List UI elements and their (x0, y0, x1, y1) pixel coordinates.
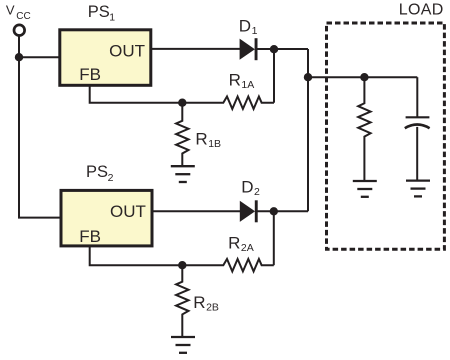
wire VCC tap to PS1 input (19, 56, 60, 58)
svg-text:OUT: OUT (110, 202, 146, 221)
resistor R2A (182, 259, 273, 271)
wire D2 node down to R2A (273, 211, 275, 265)
wire D1 cathode to bus corner (256, 48, 308, 50)
wire PS2 FB to R node (90, 245, 183, 265)
svg-text:2A: 2A (241, 242, 254, 254)
junction VCC node (15, 53, 23, 61)
power supply PS2 (61, 190, 152, 246)
svg-text:CC: CC (16, 11, 30, 22)
wire PS1 OUT to D1 anode (151, 48, 240, 50)
ground load resistor (353, 181, 377, 197)
wire load cap drop (416, 77, 418, 117)
svg-text:1A: 1A (241, 79, 254, 91)
junction D2 output node (270, 207, 278, 215)
wire OR bus vertical (307, 49, 309, 211)
svg-text:LOAD: LOAD (399, 2, 444, 19)
svg-text:R: R (193, 293, 205, 312)
svg-text:2: 2 (254, 186, 260, 198)
svg-text:D: D (239, 16, 251, 35)
wire PS1 FB to R node (90, 85, 183, 103)
svg-text:R: R (229, 71, 241, 90)
capacitor load bottom plate (405, 125, 430, 129)
svg-text:FB: FB (79, 227, 101, 246)
load box dashed outline (327, 23, 445, 249)
svg-text:FB: FB (79, 65, 101, 84)
junction load node (360, 73, 368, 81)
svg-text:2B: 2B (206, 301, 219, 313)
svg-text:R: R (195, 129, 207, 148)
junction FB2 node (178, 261, 186, 269)
svg-text:R: R (228, 233, 240, 252)
diode D1 (240, 38, 258, 60)
svg-text:V: V (6, 2, 15, 17)
svg-text:1B: 1B (208, 138, 221, 150)
resistor R2B (176, 265, 188, 336)
resistor R1B (176, 103, 188, 166)
svg-text:D: D (241, 178, 253, 197)
svg-text:OUT: OUT (109, 42, 145, 61)
junction FB1 node (178, 99, 186, 107)
svg-text:PS: PS (88, 3, 110, 21)
wire D2 cathode to bus (257, 210, 308, 212)
power supply PS1 (60, 30, 151, 86)
wire capacitor to ground (416, 127, 418, 180)
wire VCC stem down to PS2 input (19, 36, 60, 218)
wire bus to load (308, 76, 417, 78)
wire PS2 OUT to D2 anode (152, 210, 240, 212)
svg-text:PS: PS (86, 163, 108, 181)
wire D1 node down to R1A (273, 49, 275, 102)
ground R1B (171, 166, 195, 182)
junction D1 output node (270, 45, 278, 53)
junction bus-load node (304, 73, 312, 81)
svg-text:1: 1 (252, 25, 258, 37)
ground load capacitor (406, 181, 430, 197)
resistor load (358, 77, 370, 180)
svg-text:2: 2 (108, 172, 114, 184)
resistor R1A (182, 97, 274, 109)
capacitor load top plate (406, 116, 430, 118)
diode D2 (240, 200, 258, 222)
svg-text:1: 1 (109, 11, 115, 23)
ground R2B (171, 337, 195, 353)
power terminal VCC (14, 25, 25, 36)
